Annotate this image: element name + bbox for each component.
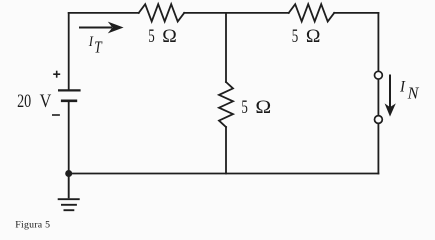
wire: top horizontal segment from R2 to right corner <box>334 12 378 14</box>
svg-text:5: 5 <box>241 97 247 118</box>
wire: left vertical from battery down to bottom junction <box>68 102 70 174</box>
svg-text:T: T <box>94 38 103 57</box>
svg-text:Figura 5: Figura 5 <box>15 219 50 230</box>
wire: left vertical from top corner down to battery <box>68 13 70 89</box>
wire: middle branch vertical from R3 to bottom wire <box>225 127 227 174</box>
wire: middle branch vertical from top wire to R3 <box>225 13 227 82</box>
resistor R1 (top left, 5 ohm) <box>139 4 185 21</box>
svg-text:5: 5 <box>292 26 298 47</box>
wire: right vertical from top corner to upper terminal <box>377 13 379 71</box>
wire: bottom horizontal <box>69 173 379 175</box>
wire: right vertical from lower terminal to bottom corner <box>377 124 379 174</box>
svg-text:Ω: Ω <box>255 97 271 118</box>
junction node (bottom left, filled dot) <box>65 170 72 177</box>
label: 5 ohm for R3 <box>241 97 271 118</box>
svg-text:Ω: Ω <box>162 26 177 47</box>
svg-text:V: V <box>40 90 52 112</box>
current arrow IT (points right) <box>79 22 124 34</box>
label: 5 ohm for R2 <box>292 26 321 47</box>
terminal a (upper open circle) <box>375 71 383 79</box>
svg-text:20: 20 <box>17 90 31 112</box>
resistor R3 (middle, 5 ohm, vertical) <box>219 82 233 127</box>
svg-text:5: 5 <box>148 26 154 47</box>
label: - polarity <box>52 114 60 116</box>
label: + polarity <box>53 71 60 78</box>
terminal b (lower open circle) <box>375 116 383 124</box>
current arrow IN (points down) <box>385 75 396 117</box>
label: 5 ohm for R1 <box>148 26 177 47</box>
battery V1 top plate (long, +) <box>58 89 81 91</box>
label: 20 V source value <box>17 90 51 112</box>
label IT <box>88 34 103 57</box>
svg-text:N: N <box>407 83 420 102</box>
battery V1 bottom plate (short, -) <box>61 100 77 103</box>
wire: short between terminals <box>377 79 379 115</box>
wire: top horizontal segment between R1 and R2 <box>184 12 289 14</box>
label IN <box>399 78 419 102</box>
ground symbol <box>58 174 80 211</box>
resistor R2 (top right, 5 ohm) <box>289 4 335 21</box>
svg-text:I: I <box>399 78 406 95</box>
wire: top horizontal segment from left corner to R1 <box>69 12 139 14</box>
svg-text:Ω: Ω <box>306 26 321 47</box>
